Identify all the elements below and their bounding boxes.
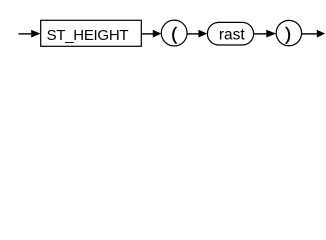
wire exit line [302, 33, 317, 35]
oval terminal rast [207, 22, 253, 45]
svg-text:ST_HEIGHT: ST_HEIGHT [47, 27, 129, 44]
svg-text:rast: rast [219, 26, 246, 43]
svg-text:): ) [285, 24, 291, 44]
arrowhead into ) [266, 30, 276, 38]
wire box to ( [141, 33, 153, 35]
circle terminal ) [276, 20, 301, 45]
circle terminal ( [161, 20, 187, 46]
box ST_HEIGHT [41, 20, 142, 46]
wire entry line [19, 33, 33, 35]
arrowhead into ST_HEIGHT box [31, 30, 40, 38]
svg-text:(: ( [171, 24, 177, 44]
arrowhead into ( [153, 30, 162, 38]
arrowhead exit [317, 30, 325, 38]
wire ( to rast [187, 33, 199, 35]
arrowhead into rast [198, 30, 207, 38]
wire rast to ) [254, 33, 267, 35]
